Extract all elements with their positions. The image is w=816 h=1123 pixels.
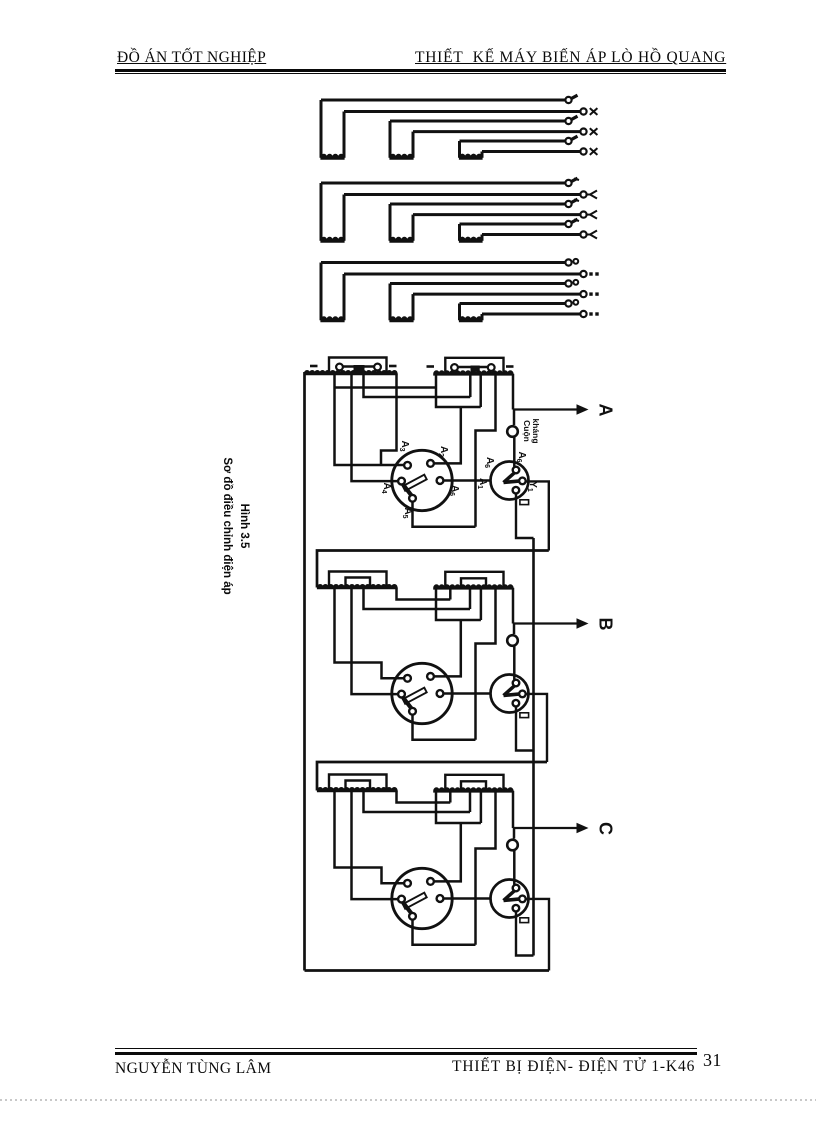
wire selector right dot to contactor B [444, 692, 491, 695]
wire g1-3 end lead [482, 150, 581, 153]
svg-text:Y1: Y1 [526, 481, 538, 492]
selector SB wiper arm [403, 688, 427, 704]
wire tap to A3 dot [335, 374, 404, 466]
wire g3-1 start lead [321, 261, 566, 264]
wire to A2 dot [434, 407, 461, 463]
terminal end g3-3 [580, 311, 586, 317]
contactor KA body [491, 462, 529, 500]
terminal start g2-1 [565, 180, 571, 186]
wire contactor B bottom dot to common [516, 707, 534, 751]
svg-text:A1: A1 [476, 478, 488, 489]
wire g2-1 end lead [344, 193, 581, 196]
reactor coil C [513, 828, 516, 839]
svg-text:C: C [596, 822, 616, 835]
terminal end g1-3 [580, 148, 586, 154]
wire selector bottom dot loop C [413, 920, 476, 945]
svg-text:Cuộn: Cuộn [522, 420, 532, 442]
terminal end g2-2 [580, 212, 586, 218]
wire g2-2 start lead [390, 203, 566, 206]
winding coil g2-2 [389, 204, 392, 241]
winding C right unit bracket [445, 775, 503, 791]
wire winding end down to line B [512, 588, 515, 624]
terminal start g1-2 [565, 118, 571, 124]
wire tap to C left dot [352, 791, 398, 900]
contactor KC body [491, 880, 529, 918]
svg-text:A6: A6 [483, 457, 495, 468]
contactor KB body [491, 675, 529, 713]
faint scan line at bottom [0, 1099, 816, 1101]
winding coil g1-3 [458, 141, 461, 158]
wire g2-3 start lead [460, 223, 566, 226]
wire main outer-left vertical [303, 372, 306, 971]
tap selector SC body [392, 868, 452, 928]
wire g3-2 end lead [413, 293, 581, 296]
terminal start g3-3 [565, 300, 571, 306]
svg-text:kháng: kháng [531, 418, 541, 443]
terminal end g3-1 [580, 271, 586, 277]
footer double rule [115, 1048, 697, 1049]
tap terminal circles A left unit [336, 364, 343, 371]
contactor KB bypass box [520, 713, 529, 718]
rail phase A output to B winding [317, 551, 549, 588]
wire tap to B upper-left dot [335, 588, 404, 679]
wire selector right dot to contactor A [444, 479, 491, 482]
winding B right unit bracket [445, 572, 503, 588]
winding coil g1-1 [320, 100, 323, 158]
wire contactor B right dot to rail [526, 694, 547, 762]
svg-text:A3: A3 [398, 440, 410, 451]
wire tap jog x396 C [397, 791, 451, 803]
wire g3-2 start lead [390, 282, 566, 285]
contactor KA arm [502, 471, 516, 484]
selector SA contact dots [404, 462, 411, 469]
terminal end g3-2 [580, 291, 586, 297]
winding coil g3-3 [458, 304, 461, 321]
terminal start g2-3 [565, 221, 571, 227]
wire g1-2 start lead [390, 120, 566, 123]
winding C left unit inner bracket [346, 781, 371, 791]
wire g3-1 end lead [344, 273, 581, 276]
wire right-unit tap x436 C [436, 791, 481, 823]
wire right-unit tap x495 to selector right dot C [476, 791, 496, 945]
header double rule [115, 69, 726, 72]
tap selector SA body [392, 450, 452, 510]
wire g3-3 start lead [460, 302, 566, 305]
svg-text:A5: A5 [401, 507, 413, 518]
line-out arrow C [513, 827, 580, 829]
footer right course [452, 1058, 695, 1076]
winding B right unit inner bracket [461, 578, 486, 588]
wire winding end down to line A [512, 374, 515, 410]
wire selector right dot to contactor C [444, 897, 491, 900]
wire tap jog x396 A [381, 374, 397, 465]
wire tap x363 B [364, 588, 471, 610]
wire contactor C right dot to bottom rail [526, 899, 549, 971]
svg-text:A6: A6 [515, 451, 527, 462]
contactor KB arm [502, 684, 516, 697]
wire g2-2 end lead [413, 213, 581, 216]
winding A right unit coil [434, 371, 513, 375]
winding A left unit coil [305, 371, 398, 375]
wire tap x363 A [364, 374, 471, 398]
svg-text:A2: A2 [437, 446, 449, 457]
wire g3-3 end lead [482, 313, 581, 316]
wire contactor C bottom dot to common [516, 912, 534, 956]
reactor coil B [513, 624, 516, 635]
wire tap to B left dot [352, 588, 398, 695]
wire x480 tap A [479, 374, 482, 407]
contactor KB contact dots [513, 680, 520, 687]
tap selector SB body [392, 663, 452, 723]
wire selector bottom dot loop A [413, 502, 476, 527]
line-out arrow A [513, 408, 580, 410]
terminal start g2-2 [565, 201, 571, 207]
rail phase B output to C winding [317, 762, 547, 791]
terminal end g2-1 [580, 191, 586, 197]
winding coil g3-2 [389, 284, 392, 321]
winding coil g3-1 [320, 263, 323, 321]
selector SB contact dots [404, 675, 411, 682]
wire g1-1 end lead [344, 110, 581, 113]
tap terminal circles A right unit [451, 364, 458, 371]
winding B left unit inner bracket [346, 578, 371, 588]
wire common long vertical (contactor commons) [532, 538, 535, 956]
header left title [117, 49, 266, 67]
terminal end g2-3 [580, 231, 586, 237]
terminal start g3-2 [565, 280, 571, 286]
svg-text:A6: A6 [448, 485, 460, 496]
wire tap jog x396 B [397, 588, 451, 600]
wire selector bottom dot loop B [413, 715, 476, 740]
wire g1-1 start lead [321, 99, 566, 102]
winding B right unit coil [434, 585, 513, 589]
winding C left unit coil [318, 788, 398, 792]
reactor coil A [513, 410, 516, 426]
wire right-unit tap x436 A [436, 374, 481, 407]
winding C right unit coil [434, 788, 513, 792]
winding A right unit bracket [445, 358, 503, 374]
winding coil g2-3 [458, 224, 461, 241]
wire winding end down to line C [512, 791, 515, 828]
wire g1-2 end lead [413, 130, 581, 133]
wire tap to A left dot [352, 374, 398, 482]
svg-text:A: A [596, 404, 616, 417]
page number [703, 1050, 722, 1071]
wire tap x363 C [364, 791, 471, 813]
selector SC wiper arm [403, 893, 427, 909]
svg-text:A4: A4 [380, 482, 392, 493]
contactor KA contact dots [513, 467, 520, 474]
winding B left unit coil [318, 585, 398, 589]
wire g2-1 start lead [321, 182, 566, 185]
wire to B upper-right dot [434, 620, 461, 676]
winding A left unit bracket [329, 358, 387, 374]
winding B left unit bracket [329, 572, 387, 588]
wire g1-3 start lead [460, 140, 566, 143]
selector SC contact dots [404, 880, 411, 887]
winding coil g2-1 [320, 183, 323, 241]
svg-text:B: B [596, 618, 616, 631]
wire g2-3 end lead [482, 233, 581, 236]
wire right-unit tap x436 B [436, 588, 481, 620]
header right title [415, 49, 726, 67]
footer left name [115, 1060, 271, 1078]
terminal start g1-1 [565, 97, 571, 103]
rail bottom return [305, 969, 550, 972]
contactor KC arm [502, 889, 516, 902]
contactor KC bypass box [520, 918, 529, 923]
winding C left unit bracket [329, 775, 387, 791]
winding C right unit inner bracket [461, 781, 486, 791]
wire to C upper-right dot [434, 823, 461, 881]
winding coil g1-2 [389, 121, 392, 158]
terminal end g1-2 [580, 129, 586, 135]
figure caption (rotated): Hinh 3.5 So do dieu chinh dien ap [218, 457, 252, 594]
wire right-unit tap x495 to selector right dot A [476, 374, 496, 527]
terminal end g1-1 [580, 108, 586, 114]
wire contactor A bottom dot to common [516, 495, 534, 539]
line-out arrow B [513, 622, 580, 624]
contactor KC contact dots [513, 885, 520, 892]
wire contactor A right dot to rail [526, 481, 549, 550]
selector SA wiper arm [403, 475, 427, 491]
wire tap to C upper-left dot [335, 791, 404, 884]
contactor KA bypass box [520, 500, 529, 505]
terminal start g1-3 [565, 138, 571, 144]
terminal start g3-1 [565, 259, 571, 265]
wire right-unit tap x495 to selector right dot B [476, 588, 496, 740]
